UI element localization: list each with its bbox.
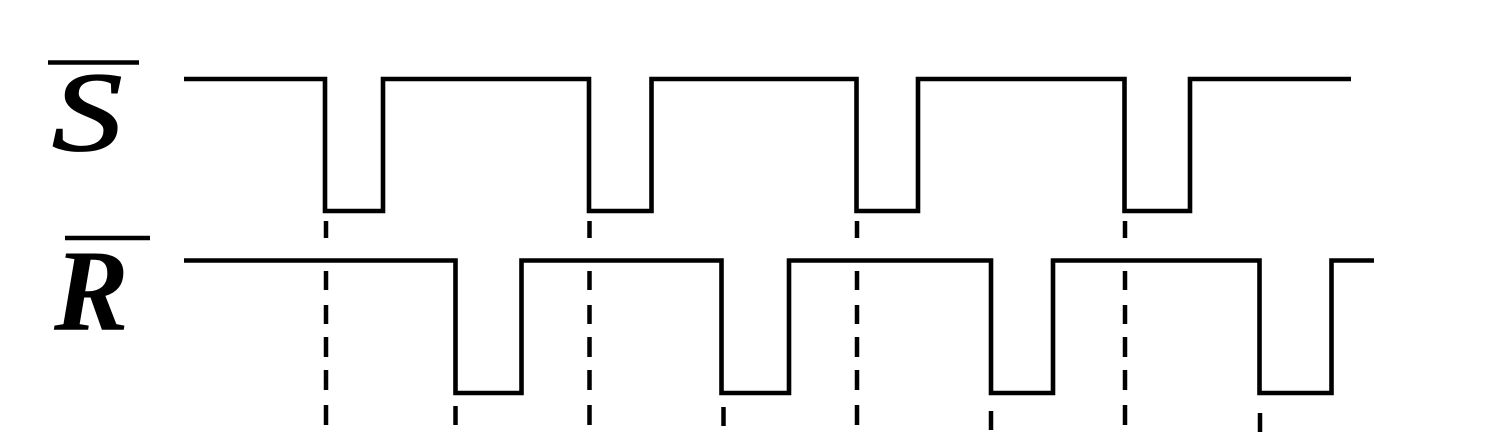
wire: dash tick at R fall 4 <box>1258 413 1263 432</box>
wire: S-bar waveform <box>184 79 1351 211</box>
node S overline <box>48 60 139 65</box>
wire: R-bar waveform <box>184 261 1374 394</box>
svg-text:R: R <box>53 226 129 355</box>
wire: dashed timing line 1 (at S fall 1) <box>324 221 329 425</box>
wire: dashed timing line 2 (at S fall 2) <box>587 221 592 425</box>
wire: dashed timing line 3 (at S fall 3) <box>855 221 860 425</box>
svg-text:S: S <box>52 49 122 175</box>
wire: dash tick at R fall 1 <box>453 406 458 425</box>
wire: dash tick at R fall 2 <box>721 407 726 426</box>
node R overline <box>65 236 150 241</box>
wire: dashed timing line 4 (at S fall 4) <box>1123 221 1128 425</box>
wire: dash tick at R fall 3 <box>989 411 994 430</box>
